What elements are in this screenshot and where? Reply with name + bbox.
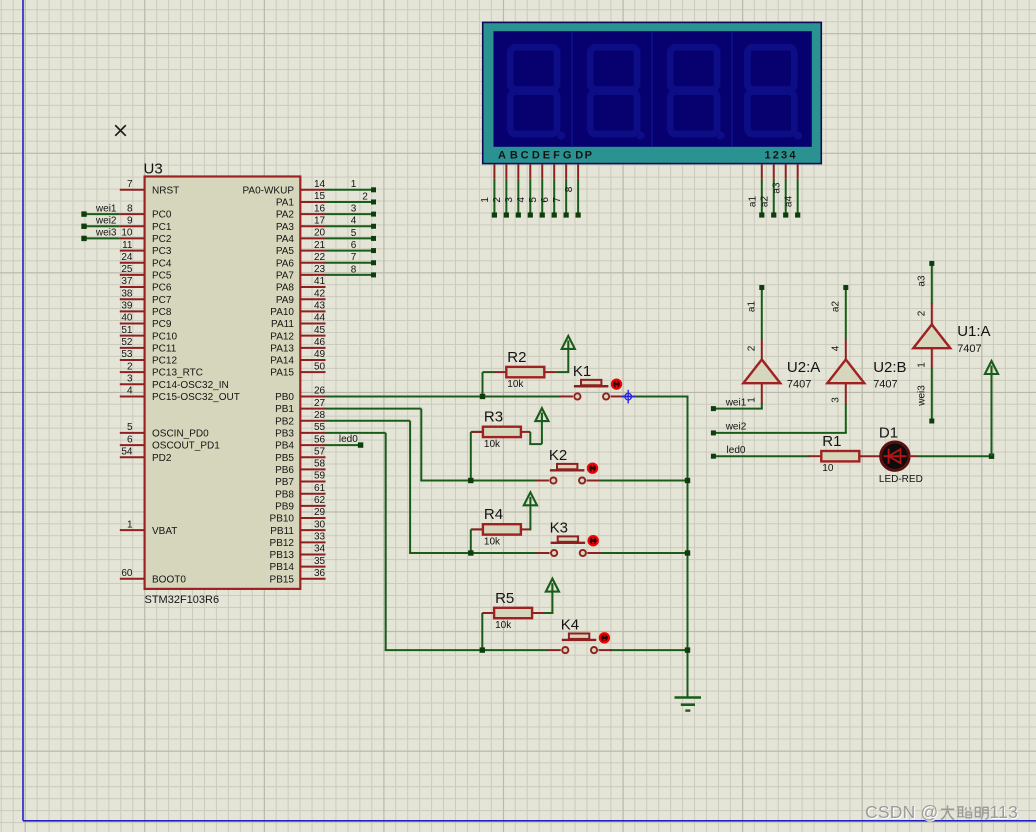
- svg-text:a1: a1: [748, 196, 759, 208]
- wire net 4 from U3 PA3: [326, 225, 372, 227]
- U3 pin 10 PC2 (left): [120, 237, 145, 239]
- K1 pin extension: [622, 395, 628, 397]
- U3 pin 1 VBAT (left): [120, 529, 145, 531]
- svg-text:LED-RED: LED-RED: [879, 474, 923, 485]
- svg-text:57: 57: [314, 446, 326, 457]
- svg-text:PA9: PA9: [276, 295, 295, 306]
- svg-text:2: 2: [773, 150, 779, 162]
- U3 pin 16 PA2 (right): [300, 213, 325, 215]
- svg-text:5: 5: [127, 422, 133, 433]
- terminal wei3: [81, 236, 86, 241]
- svg-text:PC0: PC0: [152, 210, 172, 221]
- svg-text:54: 54: [121, 446, 133, 457]
- svg-text:55: 55: [314, 422, 326, 433]
- svg-text:P: P: [585, 150, 592, 162]
- wire R3 to power: [529, 432, 531, 444]
- U3 pin 36 PB15 (right): [300, 578, 325, 580]
- wire net wei3 at U3 PC2: [84, 237, 120, 239]
- terminal net 7 display: [564, 212, 569, 217]
- wire net wei1 to U2:A input: [761, 403, 763, 409]
- U3 pin 50 PA15 (right): [300, 371, 325, 373]
- svg-text:wei3: wei3: [95, 228, 117, 239]
- svg-text:40: 40: [121, 313, 133, 324]
- wire K3 row: [409, 552, 537, 554]
- svg-text:PA2: PA2: [276, 210, 295, 221]
- svg-text:24: 24: [121, 252, 133, 263]
- svg-text:PB8: PB8: [275, 489, 294, 500]
- svg-text:PA7: PA7: [276, 270, 295, 281]
- terminal net a4 display: [795, 212, 800, 217]
- svg-text:PC4: PC4: [152, 258, 172, 269]
- svg-text:4: 4: [516, 197, 527, 203]
- svg-text:30: 30: [314, 519, 326, 530]
- svg-text:led0: led0: [339, 434, 358, 445]
- svg-text:a3: a3: [771, 182, 782, 194]
- wire R5 left lead down to K4 row: [481, 613, 483, 650]
- svg-text:10: 10: [822, 463, 834, 474]
- svg-text:PC12: PC12: [152, 356, 177, 367]
- svg-text:61: 61: [314, 483, 326, 494]
- U3 pin 57 PB5 (right): [300, 456, 325, 458]
- display decimal point 4: [794, 131, 802, 139]
- svg-text:PA6: PA6: [276, 258, 295, 269]
- wire net 3 from U3 PA2: [326, 213, 372, 215]
- svg-text:34: 34: [314, 544, 326, 555]
- svg-text:U2:A: U2:A: [787, 359, 820, 376]
- U3 pin 8 PC0 (left): [120, 213, 145, 215]
- svg-text:6: 6: [351, 240, 357, 251]
- wire net 1 display: [493, 179, 495, 214]
- wire net 5 display: [541, 179, 543, 214]
- svg-text:7: 7: [552, 197, 563, 203]
- svg-text:OSCOUT_PD1: OSCOUT_PD1: [152, 441, 220, 452]
- svg-text:49: 49: [314, 349, 326, 360]
- svg-text:PA11: PA11: [271, 319, 294, 330]
- svg-text:D1: D1: [879, 424, 898, 441]
- R5 right lead: [532, 612, 543, 614]
- svg-text:PA1: PA1: [276, 198, 295, 209]
- svg-text:45: 45: [314, 325, 326, 336]
- power symbol VCC (R5): [546, 579, 559, 592]
- svg-text:3: 3: [830, 397, 841, 403]
- svg-text:6: 6: [540, 197, 551, 203]
- wire R4 left lead down to K3 row: [470, 529, 472, 553]
- svg-text:PC5: PC5: [152, 270, 172, 281]
- terminal net 4: [371, 224, 376, 229]
- U3 pin 24 PC4 (left): [120, 262, 145, 264]
- U3 pin 52 PC11 (left): [120, 347, 145, 349]
- 4-digit 7-segment display body: [483, 22, 822, 163]
- wire net a2 from U2:B output: [845, 288, 847, 340]
- corner square: [989, 454, 994, 459]
- svg-text:1: 1: [916, 362, 927, 368]
- display pin 1: [493, 165, 495, 179]
- svg-text:2: 2: [362, 191, 368, 202]
- svg-text:PA12: PA12: [270, 331, 294, 342]
- watermark CSDN: [865, 802, 1018, 823]
- svg-text:PA10: PA10: [270, 307, 294, 318]
- display pin 6: [553, 165, 555, 179]
- wire PB1 vertical down: [420, 409, 422, 481]
- svg-text:PA13: PA13: [270, 343, 294, 354]
- svg-text:PB9: PB9: [275, 501, 294, 512]
- svg-text:PB10: PB10: [270, 514, 295, 525]
- push button K3: [536, 552, 549, 554]
- terminal net 3 display: [516, 212, 521, 217]
- U3 pin 7 NRST (left): [120, 189, 145, 191]
- svg-text:R4: R4: [484, 506, 503, 523]
- svg-text:PC8: PC8: [152, 307, 172, 318]
- svg-text:1: 1: [746, 397, 757, 403]
- wire net a1 from U2:A output: [761, 288, 763, 340]
- svg-text:56: 56: [314, 434, 326, 445]
- terminal a3 (U1:A): [929, 261, 934, 266]
- R3 right lead: [521, 431, 530, 433]
- U3 pin 3 PC14-OSC32_IN (left): [120, 383, 145, 385]
- svg-text:23: 23: [314, 264, 326, 275]
- wire net 2 from U3 PA1: [326, 201, 372, 203]
- svg-text:K3: K3: [550, 520, 568, 537]
- svg-text:7: 7: [127, 179, 133, 190]
- U3 pin 5 OSCIN_PD0 (left): [120, 432, 145, 434]
- svg-text:17: 17: [314, 215, 326, 226]
- svg-text:26: 26: [314, 386, 326, 397]
- U3 pin 39 PC8 (left): [120, 310, 145, 312]
- wire PB3 horizontal: [326, 432, 386, 434]
- svg-text:50: 50: [314, 361, 326, 372]
- svg-text:VBAT: VBAT: [152, 526, 177, 537]
- svg-text:5: 5: [528, 197, 539, 203]
- svg-text:51: 51: [121, 325, 133, 336]
- wire net 1 from U3 PA0: [326, 189, 372, 191]
- display screen: [494, 31, 812, 147]
- wire net a4 display: [797, 179, 799, 214]
- terminal net 2: [371, 199, 376, 204]
- svg-text:16: 16: [314, 203, 326, 214]
- svg-text:PB15: PB15: [270, 574, 295, 585]
- svg-text:44: 44: [314, 313, 326, 324]
- selection cursor crosshair: [621, 390, 635, 404]
- R2 right lead: [544, 371, 556, 373]
- sheet border bottom edge: [23, 820, 1036, 822]
- svg-text:R2: R2: [507, 349, 526, 366]
- push button K1: [560, 395, 573, 397]
- U3 pin 56 PB4 (right): [300, 444, 325, 446]
- svg-text:6: 6: [127, 434, 133, 445]
- svg-text:E: E: [543, 150, 550, 162]
- svg-text:PB11: PB11: [270, 526, 294, 537]
- svg-text:3: 3: [504, 197, 515, 203]
- svg-text:7407: 7407: [787, 379, 811, 391]
- display digit separator 2: [651, 31, 653, 147]
- svg-text:1: 1: [764, 150, 770, 162]
- svg-text:8: 8: [564, 186, 575, 192]
- svg-text:PC3: PC3: [152, 246, 172, 257]
- terminal net 8 display: [576, 212, 581, 217]
- svg-text:STM32F103R6: STM32F103R6: [145, 594, 220, 606]
- svg-text:PB7: PB7: [275, 477, 294, 488]
- svg-text:27: 27: [314, 398, 326, 409]
- svg-text:PC14-OSC32_IN: PC14-OSC32_IN: [152, 380, 229, 391]
- svg-text:4: 4: [351, 216, 357, 227]
- svg-text:14: 14: [314, 179, 326, 190]
- U3 pin 37 PC6 (left): [120, 286, 145, 288]
- display decimal point 2: [636, 131, 644, 139]
- svg-text:35: 35: [314, 556, 326, 567]
- svg-text:PA15: PA15: [270, 368, 294, 379]
- push button K2: [536, 480, 549, 482]
- U3 pin 11 PC3 (left): [120, 250, 145, 252]
- U3 pin 58 PB6 (right): [300, 468, 325, 470]
- svg-text:PA5: PA5: [276, 246, 295, 257]
- display pin 4: [529, 165, 531, 179]
- wire net 2 display: [505, 179, 507, 214]
- U3 pin 38 PC7 (left): [120, 298, 145, 300]
- R4 right lead: [521, 528, 531, 530]
- svg-text:U1:A: U1:A: [957, 323, 990, 340]
- svg-text:2: 2: [746, 345, 757, 351]
- svg-text:PB6: PB6: [275, 465, 294, 476]
- display pin 7: [565, 165, 567, 179]
- svg-text:D: D: [575, 150, 583, 162]
- wire bus vertical to ground: [687, 396, 689, 697]
- terminal wei3 (bottom): [929, 419, 934, 424]
- svg-text:2: 2: [916, 310, 927, 316]
- svg-text:C: C: [521, 150, 529, 162]
- svg-text:PA14: PA14: [270, 356, 294, 367]
- wire PB1 horizontal: [326, 408, 422, 410]
- svg-text:PC2: PC2: [152, 234, 172, 245]
- svg-text:PC11: PC11: [152, 343, 177, 354]
- svg-text:wei3: wei3: [916, 385, 927, 407]
- wire net wei1 at U3 PC0: [84, 213, 120, 215]
- display decimal point 1: [557, 131, 565, 139]
- svg-text:PC13_RTC: PC13_RTC: [152, 368, 203, 379]
- svg-text:a1: a1: [746, 301, 757, 313]
- svg-text:3: 3: [781, 150, 787, 162]
- svg-text:10k: 10k: [507, 379, 524, 390]
- svg-text:PB14: PB14: [270, 562, 295, 573]
- U3 pin 55 PB3 (right): [300, 432, 325, 434]
- power symbol VCC (R4): [524, 492, 537, 505]
- U3 pin 53 PC12 (left): [120, 359, 145, 361]
- terminal net 1 display: [492, 212, 497, 217]
- wire R2 left lead down to PB0: [482, 372, 484, 396]
- terminal net 6: [371, 248, 376, 253]
- svg-text:52: 52: [121, 337, 133, 348]
- svg-text:D: D: [532, 150, 540, 162]
- terminal net 3: [371, 212, 376, 217]
- svg-text:wei1: wei1: [725, 397, 747, 408]
- display digit 2 segments: [590, 47, 637, 134]
- svg-text:U3: U3: [144, 161, 163, 178]
- U3 pin 46 PA13 (right): [300, 347, 325, 349]
- svg-text:7407: 7407: [873, 379, 897, 391]
- terminal a1 (U2:A): [759, 285, 764, 290]
- svg-text:3: 3: [127, 373, 133, 384]
- svg-text:PA3: PA3: [276, 222, 295, 233]
- wire net 7 display: [565, 179, 567, 214]
- junction R4/K3 row: [468, 550, 473, 555]
- terminal net 7: [371, 260, 376, 265]
- display pin a2: [773, 165, 775, 179]
- U3 pin 6 OSCOUT_PD1 (left): [120, 444, 145, 446]
- svg-text:PC6: PC6: [152, 283, 172, 294]
- terminal net 8: [371, 272, 376, 277]
- svg-text:10: 10: [121, 228, 133, 239]
- wire net a3 from U1:A output: [931, 263, 933, 304]
- svg-text:PB5: PB5: [275, 453, 294, 464]
- junction R3/K2 row: [468, 478, 473, 483]
- wire net wei2 at U3 PC1: [84, 225, 120, 227]
- terminal net 6 display: [552, 212, 557, 217]
- buffer U1:A 7407: [913, 325, 950, 349]
- U3 pin 60 BOOT0 (left): [120, 578, 145, 580]
- U3 pin 33 PB12 (right): [300, 541, 325, 543]
- terminal wei2 (right): [711, 430, 716, 435]
- resistor R1: [821, 451, 859, 461]
- terminal a2 (U2:B): [843, 285, 848, 290]
- svg-text:R1: R1: [822, 433, 841, 450]
- svg-text:NRST: NRST: [152, 185, 179, 196]
- svg-text:53: 53: [121, 349, 133, 360]
- svg-text:a2: a2: [759, 196, 770, 208]
- svg-text:wei2: wei2: [95, 215, 117, 226]
- U3 pin 28 PB2 (right): [300, 420, 325, 422]
- buffer U2:B 7407: [827, 360, 864, 384]
- svg-text:38: 38: [121, 288, 133, 299]
- svg-text:25: 25: [121, 264, 133, 275]
- svg-text:PB1: PB1: [275, 404, 294, 415]
- svg-text:33: 33: [314, 532, 326, 543]
- resistor R3: [483, 427, 521, 437]
- svg-text:29: 29: [314, 507, 326, 518]
- svg-text:F: F: [553, 150, 560, 162]
- svg-text:a4: a4: [783, 196, 794, 208]
- svg-text:62: 62: [314, 495, 326, 506]
- terminal net 4 display: [528, 212, 533, 217]
- svg-text:2: 2: [127, 361, 133, 372]
- svg-text:K1: K1: [573, 363, 591, 380]
- terminal wei1 (right): [711, 406, 716, 411]
- svg-text:21: 21: [314, 240, 326, 251]
- svg-text:7407: 7407: [957, 343, 981, 355]
- svg-text:PB2: PB2: [275, 416, 294, 427]
- svg-text:15: 15: [314, 191, 326, 202]
- wire net wei2 to U2:B input: [845, 403, 847, 433]
- wire net a3 display: [785, 179, 787, 214]
- U3 pin 44 PA11 (right): [300, 323, 325, 325]
- U3 pin 29 PB10 (right): [300, 517, 325, 519]
- svg-text:PD2: PD2: [152, 453, 172, 464]
- svg-text:28: 28: [314, 410, 326, 421]
- wire net 8 display: [577, 179, 579, 214]
- U3 pin 54 PD2 (left): [120, 456, 145, 458]
- U3 pin 9 PC1 (left): [120, 225, 145, 227]
- svg-text:1: 1: [480, 197, 491, 203]
- display digit separator 3: [731, 31, 733, 147]
- U3 pin 43 PA10 (right): [300, 310, 325, 312]
- svg-text:2: 2: [492, 197, 503, 203]
- svg-text:PC9: PC9: [152, 319, 172, 330]
- power symbol VCC (R3): [535, 408, 548, 421]
- wire net 5 from U3 PA4: [326, 237, 372, 239]
- svg-text:22: 22: [314, 252, 326, 263]
- wire power to corner: [991, 374, 993, 457]
- svg-text:a2: a2: [830, 301, 841, 313]
- U3 pin 20 PA4 (right): [300, 237, 325, 239]
- wire R2 to power: [556, 371, 569, 373]
- svg-text:1: 1: [351, 179, 357, 190]
- wire net 6 display: [553, 179, 555, 214]
- display digit separator 1: [571, 31, 573, 147]
- wire net led0 (right): [713, 455, 809, 457]
- U3 pin 4 PC15-OSC32_OUT (left): [120, 395, 145, 397]
- svg-text:a3: a3: [916, 275, 927, 287]
- display pin a4: [797, 165, 799, 179]
- svg-text:PB3: PB3: [275, 429, 294, 440]
- svg-text:PC1: PC1: [152, 222, 172, 233]
- junction bus/K4: [685, 647, 690, 652]
- resistor R5: [494, 608, 532, 618]
- U3 pin 41 PA8 (right): [300, 286, 325, 288]
- terminal net a2 display: [771, 212, 776, 217]
- terminal wei1: [81, 211, 86, 216]
- display digit 1 segments: [510, 47, 557, 134]
- svg-text:PA4: PA4: [276, 234, 295, 245]
- terminal net 5: [371, 236, 376, 241]
- svg-text:K4: K4: [561, 617, 579, 634]
- display digit 3 segments: [670, 47, 717, 134]
- terminal net a3 display: [783, 212, 788, 217]
- svg-text:43: 43: [314, 301, 326, 312]
- svg-text:10k: 10k: [495, 620, 512, 631]
- svg-text:R3: R3: [484, 409, 503, 426]
- svg-text:41: 41: [314, 276, 326, 287]
- U3 pin 25 PC5 (left): [120, 274, 145, 276]
- wire PB3 vertical down: [385, 433, 387, 650]
- wire D1 to power corner: [909, 455, 918, 457]
- terminal net 5 display: [540, 212, 545, 217]
- svg-text:led0: led0: [727, 445, 746, 456]
- svg-text:U2:B: U2:B: [873, 359, 906, 376]
- wire net 8 from U3 PA7: [326, 274, 372, 276]
- svg-text:PB12: PB12: [270, 538, 295, 549]
- wire K2 row: [420, 480, 536, 482]
- U3 pin 14 PA0-WKUP (right): [300, 189, 325, 191]
- U3 pin 61 PB8 (right): [300, 493, 325, 495]
- wire net 4 display: [529, 179, 531, 214]
- resistor R2: [506, 367, 544, 377]
- terminal led0 (right): [711, 454, 716, 459]
- svg-text:36: 36: [314, 568, 326, 579]
- wire K4 row: [385, 649, 548, 651]
- svg-text:11: 11: [122, 240, 133, 251]
- svg-text:R5: R5: [495, 590, 514, 607]
- push button K4: [547, 649, 560, 651]
- wire R3 left lead down to K2 row: [470, 432, 472, 481]
- svg-text:9: 9: [127, 215, 133, 226]
- wire R5 to power: [543, 612, 553, 614]
- U3 pin 45 PA12 (right): [300, 335, 325, 337]
- U3 pin 23 PA7 (right): [300, 274, 325, 276]
- U3 pin 40 PC9 (left): [120, 323, 145, 325]
- display pin 8: [577, 165, 579, 179]
- wire net 6 from U3 PA5: [326, 250, 372, 252]
- svg-text:PC10: PC10: [152, 331, 177, 342]
- origin marker X: [115, 125, 126, 136]
- wire net a1 display: [761, 179, 763, 214]
